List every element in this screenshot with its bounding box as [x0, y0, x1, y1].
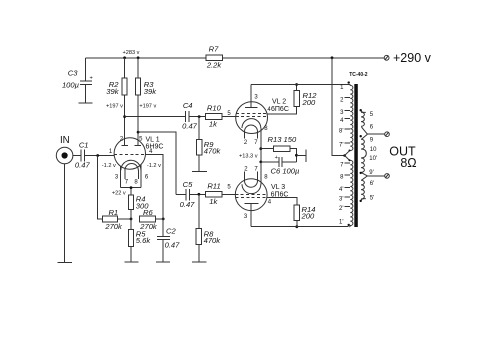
- node +283 v: [123, 50, 140, 59]
- svg-text:+197 v: +197 v: [106, 103, 123, 109]
- capacitor C3: [62, 58, 93, 103]
- svg-text:-1.2 v: -1.2 v: [147, 163, 161, 169]
- svg-text:0.47: 0.47: [75, 161, 91, 170]
- svg-text:2': 2': [339, 206, 343, 212]
- VL2 name: [271, 99, 289, 113]
- wire C5 to R11 with node: [189, 193, 205, 196]
- wire to ground bar: [296, 154, 305, 156]
- wire C4 to R10 with node: [189, 115, 206, 118]
- svg-text:5.6k: 5.6k: [136, 236, 152, 245]
- svg-text:R1: R1: [108, 208, 118, 217]
- svg-text:+13.3 v: +13.3 v: [239, 153, 258, 159]
- resistor R1: [102, 208, 131, 231]
- VL3 screen grid dashed pin 4: [236, 198, 272, 206]
- wire +290 node to transformer center tap: [331, 56, 351, 161]
- svg-text:C5: C5: [183, 180, 193, 189]
- transformer primary lower winding: [349, 160, 353, 226]
- svg-text:6П6С: 6П6С: [271, 106, 289, 113]
- primary tap 2': [339, 206, 350, 212]
- svg-text:200: 200: [302, 98, 316, 107]
- VL1 plate pin 5: [135, 137, 143, 146]
- svg-text:270k: 270k: [104, 222, 123, 231]
- primary tap 7': [339, 142, 350, 148]
- secondary phase dots: [360, 109, 362, 111]
- svg-text:+197 v: +197 v: [139, 103, 156, 109]
- primary tap 3': [339, 197, 350, 203]
- svg-text:0.47: 0.47: [165, 241, 181, 250]
- ground IN: [58, 261, 72, 263]
- VL3 plate pin 3: [244, 204, 259, 227]
- VL1 cathode leads box pins 3 6: [115, 164, 149, 189]
- node cathode R13: [259, 147, 262, 150]
- primary tap 8: [340, 175, 350, 181]
- node R1 R4 R5 R6: [130, 218, 133, 221]
- ground C2: [156, 261, 170, 263]
- svg-text:7': 7': [339, 142, 343, 148]
- tube VL1 envelope: [114, 138, 145, 169]
- tube VL3 envelope: [235, 179, 267, 211]
- secondary terminal 2 wire: [367, 174, 389, 179]
- capacitor C6: [261, 155, 300, 176]
- VL3 heater pins 2 7: [244, 166, 258, 187]
- ground R13 C6 vertical bar: [305, 149, 307, 161]
- wire IN to C1: [73, 155, 81, 157]
- wire VL3 cathode up to C6 node: [260, 162, 262, 184]
- VL1 cathode arc: [121, 160, 141, 170]
- svg-text:C3: C3: [68, 69, 78, 78]
- resistor R14: [294, 205, 315, 228]
- secondary winding 5-6: [361, 110, 374, 134]
- resistor R3: [136, 58, 158, 146]
- VL1 plate pin 2: [120, 137, 128, 146]
- resistor R12: [294, 83, 317, 107]
- primary tap 8': [339, 129, 350, 135]
- svg-text:C6 100µ: C6 100µ: [271, 166, 300, 175]
- svg-text:C4: C4: [183, 101, 193, 110]
- svg-text:300: 300: [136, 201, 149, 210]
- primary tap 3: [340, 110, 350, 116]
- wire IN jack to ground: [64, 164, 66, 262]
- svg-text:5': 5': [370, 195, 374, 201]
- VL1 grid dashed: [114, 153, 145, 155]
- resistor R5: [128, 219, 151, 262]
- VL2 plate pin 3: [245, 85, 258, 108]
- svg-text:39k: 39k: [106, 87, 119, 96]
- svg-text:8Ω: 8Ω: [400, 156, 416, 170]
- wire input node down to R1: [98, 156, 103, 219]
- VL3 cathode arc pin 8: [242, 174, 268, 193]
- svg-text:100µ: 100µ: [62, 81, 80, 90]
- capacitor C5: [176, 180, 195, 209]
- transformer primary upper winding: [349, 85, 353, 151]
- wire C1 to VL1 grid pin 1: [84, 154, 114, 157]
- capacitor C4: [182, 101, 198, 131]
- svg-text:+290 v: +290 v: [393, 51, 432, 65]
- ground R8: [192, 261, 207, 263]
- wire +290 rail right segment: [223, 57, 385, 59]
- svg-text:10: 10: [370, 147, 377, 153]
- resistor R13: [261, 135, 297, 162]
- svg-text:1k: 1k: [209, 197, 218, 206]
- svg-text:R10: R10: [207, 104, 222, 113]
- svg-text:IN: IN: [60, 135, 70, 146]
- ground C3: [79, 102, 93, 104]
- svg-text:VL 2: VL 2: [272, 99, 286, 106]
- primary tap 4: [340, 118, 350, 124]
- svg-text:470k: 470k: [204, 146, 222, 155]
- transformer core: [354, 84, 358, 227]
- node ground tap: [295, 154, 298, 157]
- wire R10 to VL2 grid pin 5: [222, 111, 236, 117]
- primary tap 4': [339, 187, 350, 193]
- svg-text:C2: C2: [166, 227, 176, 236]
- svg-text:R11: R11: [207, 182, 220, 191]
- svg-text:TC-40-2: TC-40-2: [349, 72, 368, 78]
- VL2 control grid dashed pin 5: [236, 116, 268, 118]
- wire VL1 grid pin4 to R6/C2 node: [146, 154, 164, 219]
- connector IN jack: [56, 135, 73, 164]
- node R6 C2 pin4: [162, 218, 165, 221]
- ground R9: [192, 170, 207, 172]
- svg-text:R13 150: R13 150: [268, 135, 297, 144]
- svg-text:8': 8': [339, 129, 343, 135]
- svg-text:-1.2 v: -1.2 v: [102, 163, 116, 169]
- resistor R8: [196, 194, 221, 261]
- svg-text:6Н9С: 6Н9С: [146, 143, 164, 150]
- resistor R7: [206, 45, 223, 70]
- capacitor C1: [75, 141, 91, 170]
- wire VL1 plate pin5 to C5: [137, 131, 176, 195]
- wire VL1 plate pin2 to C4: [123, 115, 185, 118]
- resistor R11: [206, 182, 223, 207]
- svg-text:1k: 1k: [209, 119, 218, 128]
- svg-text:1': 1': [339, 220, 343, 226]
- wire +290 rail left segment: [86, 57, 206, 59]
- resistor R10: [206, 104, 223, 129]
- svg-text:39k: 39k: [144, 87, 157, 96]
- svg-text:2.2k: 2.2k: [206, 61, 223, 70]
- primary phase dot bottom: [348, 224, 350, 226]
- svg-text:C1: C1: [79, 141, 89, 150]
- primary tap 7: [340, 162, 350, 168]
- wire VL2 screen to R12: [267, 107, 297, 115]
- svg-text:VL 3: VL 3: [271, 184, 285, 191]
- VL1 heater: [125, 163, 139, 185]
- tube VL2 envelope: [236, 102, 268, 134]
- wire cathode to C6: [260, 149, 262, 162]
- primary phase dot top: [348, 81, 350, 83]
- svg-text:470k: 470k: [204, 236, 222, 245]
- svg-text:R7: R7: [209, 45, 219, 54]
- secondary winding 10'-9': [361, 156, 377, 176]
- VL3 name: [271, 184, 289, 198]
- svg-text:200: 200: [301, 212, 315, 221]
- resistor R2: [106, 58, 127, 146]
- svg-text:10': 10': [369, 156, 377, 162]
- svg-text:+283 v: +283 v: [123, 50, 140, 56]
- resistor R9: [196, 117, 221, 172]
- resistor R4: [128, 188, 149, 219]
- secondary winding 9-10: [361, 134, 377, 158]
- wire VL2 plate to transformer pin 1: [251, 84, 349, 86]
- primary tap 2: [340, 98, 350, 104]
- wire VL2 cathode down: [260, 128, 262, 149]
- svg-text:0.47: 0.47: [180, 200, 196, 209]
- capacitor C2: [157, 219, 180, 262]
- VL1 name: [146, 137, 164, 151]
- svg-text:6': 6': [370, 181, 374, 187]
- svg-text:4': 4': [339, 187, 343, 193]
- svg-text:3': 3': [339, 197, 343, 203]
- node C6 tap: [259, 161, 262, 164]
- VL2 cathode arc pin 8: [242, 119, 268, 133]
- VL3 control grid dashed pin 5: [235, 193, 267, 195]
- wire VL3 screen to R14: [267, 198, 297, 205]
- secondary winding 6'-5': [361, 176, 374, 201]
- wire R11 to VL3 grid pin 5: [222, 184, 235, 194]
- terminal +290 v: [384, 51, 431, 65]
- svg-text:9': 9': [369, 170, 373, 176]
- svg-text:0.47: 0.47: [182, 122, 198, 131]
- resistor R6: [139, 208, 163, 231]
- ground R5: [124, 261, 138, 263]
- VL2 heater pins 2 7: [244, 125, 258, 146]
- svg-text:+: +: [90, 75, 93, 81]
- secondary terminal 1 wire: [367, 132, 389, 137]
- svg-text:+: +: [275, 155, 278, 161]
- VL2 screen grid dashed pin 4: [236, 107, 271, 113]
- svg-text:+22 v: +22 v: [112, 191, 126, 197]
- wire VL3 plate to transformer pin 1': [251, 226, 348, 228]
